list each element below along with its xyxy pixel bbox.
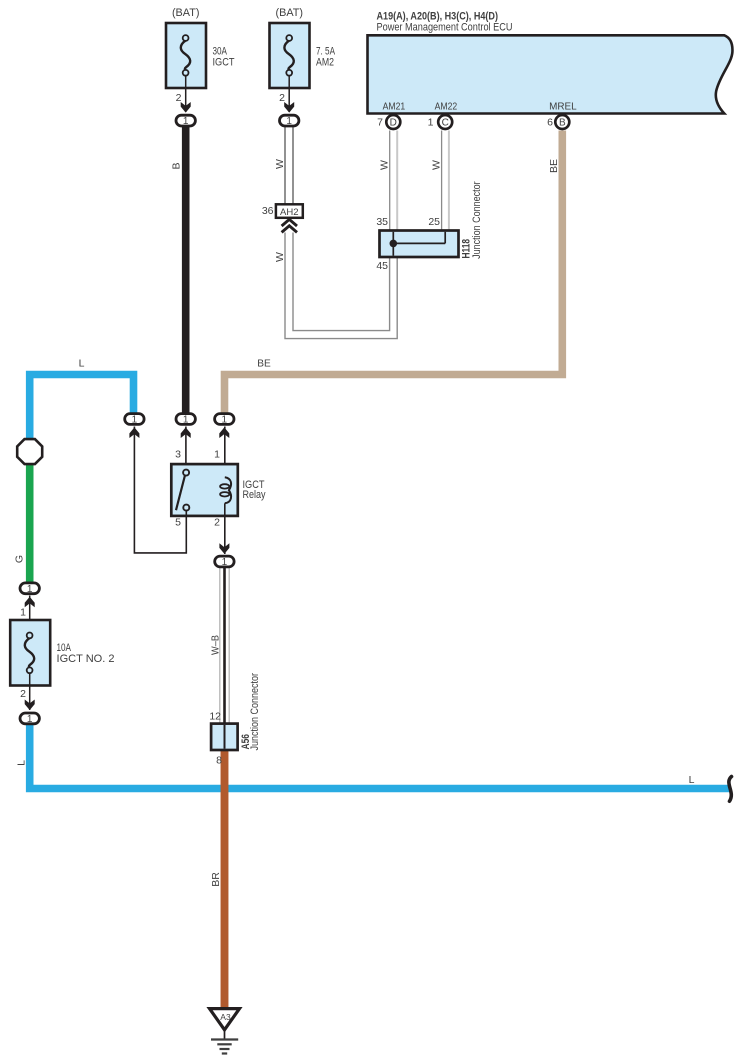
svg-text:AM22: AM22 bbox=[435, 101, 458, 113]
wire W-B relay pin2 to A56 pin 12 bbox=[220, 568, 229, 724]
pin 7 D of ECU bbox=[377, 115, 400, 129]
chevron shield below AH2 bbox=[282, 219, 297, 232]
svg-text:IGCT NO. 2: IGCT NO. 2 bbox=[57, 653, 115, 665]
node 1 connector above relay pin1 bbox=[215, 414, 234, 438]
wire relay pin5 loop to connector bbox=[134, 427, 186, 553]
wire L blue top left bbox=[30, 375, 134, 439]
fuse 10A IGCT NO. 2 bbox=[10, 620, 50, 710]
svg-text:G: G bbox=[14, 555, 26, 563]
wire W fuse2 to AH2 bbox=[285, 126, 293, 204]
svg-text:B: B bbox=[559, 118, 566, 129]
svg-text:45: 45 bbox=[376, 260, 388, 272]
svg-text:D: D bbox=[390, 118, 397, 129]
svg-text:A56: A56 bbox=[240, 734, 252, 750]
fuse 7.5A AM2 bbox=[270, 23, 310, 112]
svg-text:L: L bbox=[79, 358, 85, 370]
svg-text:BR: BR bbox=[210, 872, 222, 887]
pin 1 C of ECU bbox=[428, 115, 453, 129]
svg-text:Power Management Control ECU: Power Management Control ECU bbox=[377, 22, 513, 34]
wire relay pin2 down bbox=[224, 516, 226, 554]
svg-text:L: L bbox=[689, 774, 695, 786]
junction connector H118 bbox=[380, 231, 459, 258]
node 1 connector below fuse1 bbox=[176, 115, 195, 127]
svg-text:(BAT): (BAT) bbox=[172, 7, 200, 19]
wire G green bbox=[26, 463, 34, 583]
svg-text:L: L bbox=[16, 760, 28, 766]
svg-text:IGCT: IGCT bbox=[213, 57, 235, 69]
svg-text:BE: BE bbox=[257, 358, 271, 370]
svg-text:25: 25 bbox=[428, 216, 440, 228]
svg-text:Junction Connector: Junction Connector bbox=[471, 181, 483, 259]
svg-text:3: 3 bbox=[175, 449, 181, 461]
svg-text:AM21: AM21 bbox=[383, 101, 406, 113]
svg-text:W: W bbox=[274, 252, 286, 262]
connector AH2 bbox=[276, 204, 303, 218]
node 1 connector below relay bbox=[215, 556, 234, 568]
svg-text:B: B bbox=[171, 162, 183, 169]
wire W AH2 loop to H118 pin 45 bbox=[285, 233, 397, 339]
ECU U1 Power Management Control ECU box bbox=[368, 35, 733, 113]
node 1 connector below fuse2 bbox=[280, 115, 299, 127]
svg-text:W: W bbox=[379, 160, 391, 170]
svg-text:2: 2 bbox=[20, 688, 26, 700]
wire W ECU AM22 pin C to H118 pin 25 bbox=[442, 131, 449, 231]
ground A3 bbox=[210, 1009, 240, 1054]
svg-text:1: 1 bbox=[428, 116, 434, 128]
wire break squiggle bbox=[729, 777, 732, 802]
svg-text:5: 5 bbox=[175, 517, 181, 529]
splice octagon bbox=[17, 439, 42, 464]
svg-text:1: 1 bbox=[214, 449, 220, 461]
svg-text:1: 1 bbox=[20, 607, 26, 619]
svg-text:Relay: Relay bbox=[243, 489, 266, 501]
svg-text:7: 7 bbox=[377, 116, 383, 128]
relay K1 IGCT Relay bbox=[171, 464, 238, 516]
svg-text:W–B: W–B bbox=[210, 635, 222, 655]
svg-text:8: 8 bbox=[216, 755, 222, 767]
node 1 connector below fuse3 bbox=[20, 713, 39, 725]
wire relay pin1 lead bbox=[224, 427, 226, 479]
wire fuse3 pin1 lead bbox=[29, 596, 31, 622]
svg-text:MREL: MREL bbox=[549, 101, 577, 113]
arrow into connector fuse2 bbox=[284, 102, 294, 113]
svg-text:AH2: AH2 bbox=[280, 207, 298, 218]
svg-text:36: 36 bbox=[262, 205, 274, 217]
svg-text:2: 2 bbox=[214, 517, 220, 529]
junction connector A56 bbox=[211, 724, 238, 750]
svg-text:6: 6 bbox=[547, 116, 553, 128]
arrow into connector below fuse3 bbox=[25, 700, 35, 711]
arrow into connector fuse1 bbox=[181, 102, 191, 113]
svg-text:AM2: AM2 bbox=[316, 57, 334, 69]
svg-text:(BAT): (BAT) bbox=[276, 7, 304, 19]
svg-text:A3: A3 bbox=[220, 1012, 231, 1022]
node 1 connector left of relay bbox=[125, 414, 144, 438]
svg-text:C: C bbox=[442, 118, 449, 129]
wire BR brown to ground bbox=[221, 749, 229, 1010]
svg-text:W: W bbox=[274, 159, 286, 169]
node 1 connector above fuse3 bbox=[20, 583, 39, 607]
pin 6 B of ECU bbox=[547, 115, 569, 129]
svg-text:BE: BE bbox=[548, 159, 560, 173]
arrow into connector below relay bbox=[219, 543, 229, 554]
wire L blue bottom left bbox=[30, 725, 731, 789]
svg-text:W: W bbox=[431, 160, 443, 170]
wire BE tan from ECU MREL down and left to relay column bbox=[225, 131, 563, 414]
wire relay pin3 lead bbox=[185, 427, 187, 470]
fuse 30A IGCT bbox=[166, 23, 206, 112]
node 1 connector above relay pin3 bbox=[176, 414, 195, 438]
svg-text:35: 35 bbox=[376, 216, 388, 228]
svg-text:12: 12 bbox=[209, 711, 221, 723]
wire B black fuse1 to connector bbox=[182, 126, 190, 414]
wire W ECU AM21 pin D to H118 pin 35 bbox=[390, 131, 398, 231]
